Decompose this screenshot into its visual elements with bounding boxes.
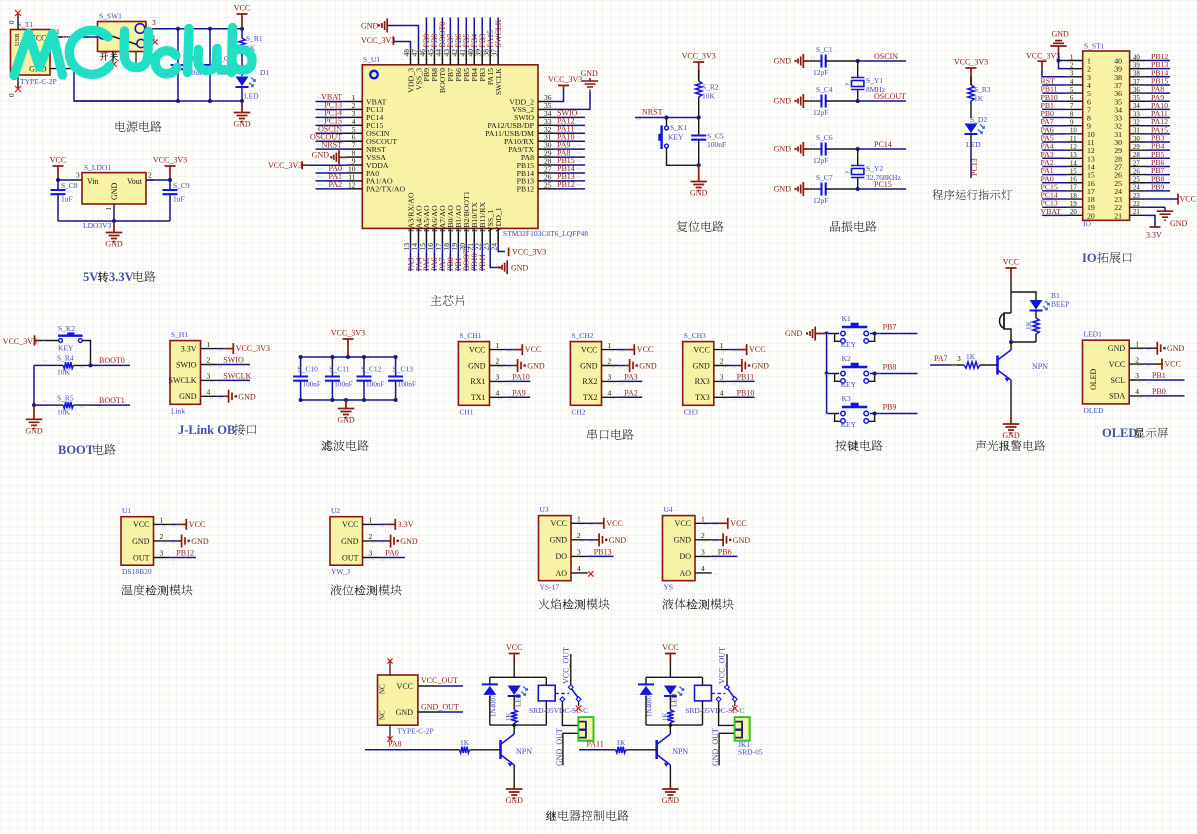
pin 11 U1 PA1/AO — [347, 180, 362, 182]
svg-text:CH2: CH2 — [571, 407, 585, 416]
svg-text:S_T1: S_T1 — [17, 20, 34, 29]
svg-text:GND: GND — [733, 536, 751, 545]
svg-text:?: ? — [845, 83, 852, 86]
svg-text:4: 4 — [701, 564, 705, 573]
pin 1 T1 — [50, 36, 74, 38]
svg-text:VCC: VCC — [581, 345, 597, 354]
svg-text:TX3: TX3 — [695, 393, 710, 402]
net label GND_OUT — [418, 711, 440, 713]
svg-text:1: 1 — [496, 341, 500, 350]
svg-text:2: 2 — [1135, 355, 1139, 364]
svg-text:K2: K2 — [842, 354, 851, 363]
svg-text:1: 1 — [720, 341, 724, 350]
power VCC U4 — [712, 522, 719, 524]
svg-text:S_C8: S_C8 — [61, 181, 78, 190]
pin 46 U1 PB9 — [425, 50, 427, 65]
svg-text:PB8: PB8 — [883, 362, 897, 371]
resistor S_R2 — [698, 70, 700, 81]
svg-text:GND: GND — [609, 536, 627, 545]
pin 2 U1 PC13 — [347, 108, 362, 110]
svg-text:PC15: PC15 — [874, 180, 892, 189]
pin 11 ST1 — [1067, 141, 1083, 143]
pin 22 U1 PB11/RX — [481, 228, 483, 243]
svg-text:36: 36 — [1133, 87, 1140, 94]
svg-text:S_C13: S_C13 — [393, 365, 414, 374]
svg-text:U1: U1 — [122, 506, 131, 515]
pin 1 LDO1 — [113, 204, 115, 212]
pin 1 ST1 — [1067, 60, 1083, 62]
pin 34 ST1 — [1130, 108, 1146, 110]
svg-text:1K: 1K — [616, 738, 626, 747]
svg-text:17: 17 — [1070, 185, 1077, 192]
svg-text:GND: GND — [468, 361, 486, 370]
svg-text:S_C7: S_C7 — [816, 173, 833, 182]
svg-text:PB11: PB11 — [478, 254, 487, 272]
svg-text:NC: NC — [379, 684, 387, 694]
pin 24 ST1 — [1130, 190, 1146, 192]
resistor 1K relay — [511, 710, 517, 723]
capacitor S_C10 — [300, 357, 302, 377]
svg-text:LED: LED — [671, 693, 679, 707]
svg-text:34: 34 — [1133, 103, 1140, 110]
wire filter bottom rail — [301, 399, 396, 401]
svg-text:S_Y1: S_Y1 — [866, 76, 883, 85]
title 声光报警电路 — [976, 440, 987, 451]
net label SWCLK — [217, 379, 250, 381]
svg-text:RX1: RX1 — [470, 377, 485, 386]
wire gndout — [563, 733, 579, 765]
svg-text:100nF: 100nF — [366, 381, 384, 389]
svg-text:1uF: 1uF — [61, 195, 73, 204]
svg-text:SCL: SCL — [1111, 376, 1126, 385]
svg-text:12: 12 — [1070, 144, 1077, 151]
module U3 YS-17 — [539, 516, 572, 581]
svg-text:D1: D1 — [260, 68, 269, 77]
svg-text:KEY: KEY — [841, 420, 857, 429]
wire T1 pin2 down — [74, 69, 178, 101]
svg-text:GND: GND — [361, 22, 379, 31]
pin 3 LDO1 — [74, 179, 82, 181]
svg-text:23: 23 — [1133, 193, 1140, 200]
pin 27 U1 PB14 — [538, 172, 553, 174]
wire PC14 — [858, 148, 906, 150]
svg-text:GND: GND — [233, 120, 251, 129]
connector S_CH1 — [458, 342, 489, 406]
svg-text:4: 4 — [720, 389, 724, 398]
svg-text:VCC: VCC — [1165, 360, 1181, 369]
svg-text:S_LDO1: S_LDO1 — [84, 163, 111, 172]
connector S_H1 JLink — [170, 341, 201, 405]
svg-text:TYPE-C-2P: TYPE-C-2P — [397, 727, 434, 736]
svg-text:OUT: OUT — [133, 553, 150, 562]
svg-text:PB7: PB7 — [883, 322, 897, 331]
svg-text:YS: YS — [664, 583, 674, 592]
net label PB11 — [731, 380, 755, 382]
svg-text:YS-17: YS-17 — [540, 583, 560, 592]
pin 43 U1 PB7 — [449, 50, 451, 65]
ground GND U1 — [170, 540, 177, 542]
svg-text:7: 7 — [1070, 103, 1074, 110]
title 主芯片 — [431, 295, 442, 305]
wire ldo bottom rail — [58, 220, 170, 222]
svg-text:0: 0 — [8, 93, 16, 97]
pin 18 U1 PB0/AO — [449, 228, 451, 243]
svg-text:AO: AO — [555, 569, 567, 578]
wire to K3 — [827, 413, 835, 415]
svg-text:4: 4 — [207, 388, 211, 397]
wire base relay — [579, 749, 601, 751]
svg-text:8: 8 — [1070, 111, 1074, 118]
svg-text:BOOT1: BOOT1 — [99, 396, 125, 405]
svg-text:GND: GND — [396, 708, 414, 717]
svg-text:CH1: CH1 — [459, 407, 473, 416]
svg-text:S_R5: S_R5 — [57, 393, 74, 402]
svg-text:VCC: VCC — [1180, 195, 1196, 204]
ground GND ch2 — [618, 365, 625, 367]
svg-text:NPN: NPN — [516, 747, 532, 756]
module U1 DS18B20 — [121, 517, 154, 566]
svg-text:GND: GND — [692, 361, 710, 370]
wire collector relay — [669, 725, 671, 734]
pin 33 U1 PA12/USB/DP — [538, 124, 553, 126]
svg-text:VCC: VCC — [693, 345, 709, 354]
svg-text:11: 11 — [1070, 136, 1077, 143]
pin 12 ST1 — [1067, 149, 1083, 151]
wire base relay — [365, 749, 445, 751]
wire power bottom rail — [74, 100, 242, 102]
svg-text:GND: GND — [527, 362, 545, 371]
ground GND relay PA11 — [662, 785, 679, 798]
svg-text:GND: GND — [580, 361, 598, 370]
key S_K1 — [666, 118, 668, 127]
svg-text:OLED: OLED — [1084, 406, 1105, 415]
svg-text:OLED: OLED — [1102, 426, 1137, 440]
svg-text:SDA: SDA — [1109, 392, 1125, 401]
svg-text:30: 30 — [1133, 136, 1140, 143]
pin 33 ST1 — [1130, 117, 1146, 119]
pin 31 ST1 — [1130, 133, 1146, 135]
svg-text:PB11: PB11 — [737, 373, 755, 382]
svg-text:GND: GND — [179, 392, 197, 401]
title 复位电路 — [677, 221, 688, 232]
svg-text:VCC_3V3: VCC_3V3 — [361, 36, 395, 45]
svg-text:LED: LED — [515, 693, 523, 707]
svg-text:GND: GND — [690, 189, 708, 198]
net label PA9 — [506, 396, 530, 398]
wire relay bottom rail — [490, 724, 547, 726]
pin 21 ST1 — [1130, 214, 1146, 216]
svg-text:LED: LED — [244, 92, 259, 101]
buzzer B1 — [1000, 314, 1005, 329]
svg-text:12: 12 — [348, 180, 356, 189]
pin 2 T1 — [50, 68, 74, 70]
svg-text:VCC: VCC — [469, 345, 485, 354]
pin 14 ST1 — [1067, 165, 1083, 167]
connector JK relay — [735, 717, 750, 741]
wire OSCOUT — [858, 100, 906, 102]
wire GND to pin35 — [553, 91, 590, 109]
pin 41 U1 PB5 — [465, 50, 467, 65]
svg-text:16: 16 — [1070, 177, 1077, 184]
svg-text:VCC_3V3: VCC_3V3 — [3, 337, 37, 346]
pin 7 U1 NRST — [347, 148, 362, 150]
wire collector relay — [513, 725, 515, 734]
no-ERC T2 bottom — [389, 725, 391, 738]
module U4 YS — [663, 516, 696, 581]
pin 12 U1 PA2/TX/AO — [347, 188, 362, 190]
capacitor S_C2 — [177, 29, 179, 65]
svg-text:DS18B20: DS18B20 — [122, 567, 152, 576]
title 继电器控制电路 — [546, 811, 557, 822]
svg-text:BEEP: BEEP — [1051, 300, 1069, 309]
crystal S_Y1 — [857, 61, 859, 77]
svg-text:3.3V: 3.3V — [1146, 231, 1162, 240]
svg-text:10K: 10K — [57, 407, 71, 416]
ground GND U4 — [712, 539, 719, 541]
label 开关 — [100, 53, 109, 61]
title 串口电路 — [587, 429, 597, 440]
svg-text:GND: GND — [1170, 219, 1188, 228]
svg-text:VCC: VCC — [397, 682, 413, 691]
svg-text:K3: K3 — [842, 394, 851, 403]
capacitor S_C9 — [169, 180, 171, 190]
svg-text:12pF: 12pF — [813, 68, 828, 77]
resistor 1K base relay — [616, 747, 626, 753]
svg-text:1: 1 — [1135, 339, 1139, 348]
svg-text:VDD_1: VDD_1 — [494, 207, 503, 232]
wire vcc to key2 — [40, 340, 59, 342]
wire VCC_3V3 to pin36 — [553, 90, 564, 102]
pin 23 U1 VSS_1 — [489, 228, 491, 243]
svg-text:VCC_3V3: VCC_3V3 — [682, 52, 716, 61]
pin 19 ST1 — [1067, 206, 1083, 208]
title 电源电路 — [116, 121, 126, 132]
wire collector — [1010, 342, 1012, 348]
pin 16 ST1 — [1067, 182, 1083, 184]
capacitor S_C1 — [809, 60, 822, 62]
svg-text:3: 3 — [1135, 371, 1139, 380]
pin 16 U1 PA6/AO — [433, 228, 435, 243]
svg-text:?: ? — [845, 171, 852, 174]
pin 25 ST1 — [1130, 182, 1146, 184]
LED relay — [508, 686, 521, 696]
resistor S_R5 — [63, 402, 74, 408]
svg-text:12pF: 12pF — [813, 108, 828, 117]
no-ERC SW1 bottom pins — [112, 52, 114, 63]
pin 35 U1 VSS_2 — [538, 108, 553, 110]
pin 23 ST1 — [1130, 198, 1146, 200]
net label PB10 — [731, 396, 755, 398]
svg-text:38: 38 — [1133, 71, 1140, 78]
ground GND alarm — [1003, 415, 1020, 433]
diode 1N4007 — [482, 683, 498, 685]
svg-text:S_C6: S_C6 — [816, 133, 833, 142]
pin 6 ST1 — [1067, 100, 1083, 102]
no-ERC T2 top — [389, 662, 391, 675]
svg-text:PA10: PA10 — [512, 373, 530, 382]
svg-text:1uF: 1uF — [173, 195, 185, 204]
svg-text:35: 35 — [1133, 95, 1140, 102]
LED relay — [664, 686, 677, 696]
svg-text:12pF: 12pF — [813, 196, 828, 205]
pin 48 U1 VDD_3 — [410, 50, 412, 65]
svg-text:VCC: VCC — [133, 520, 149, 529]
svg-text:PA8: PA8 — [388, 740, 402, 749]
pin 28 ST1 — [1130, 157, 1146, 159]
svg-text:LDO3V3: LDO3V3 — [83, 221, 112, 230]
pin 8 ST1 — [1067, 117, 1083, 119]
crystal S_Y2 — [857, 149, 859, 165]
svg-text:DO: DO — [679, 552, 691, 561]
pin 2 LDO1 — [146, 179, 154, 181]
relay contact assembly — [711, 692, 725, 694]
wire contact to connector — [562, 701, 578, 725]
no-ERC bottom pin T1 — [17, 75, 19, 88]
svg-text:GND: GND — [238, 392, 256, 401]
pin 15 U1 PA5/AO — [425, 228, 427, 243]
pin 5 ST1 — [1067, 92, 1083, 94]
svg-text:SRD-05: SRD-05 — [738, 748, 763, 757]
pin 13 ST1 — [1067, 157, 1083, 159]
svg-text:3: 3 — [76, 171, 80, 180]
wire VCC_3V3 to pin9 — [309, 164, 347, 166]
capacitor S_C3 — [209, 29, 211, 65]
svg-text:VCC: VCC — [749, 345, 765, 354]
svg-text:KEY: KEY — [58, 344, 74, 353]
resistor 1K alarm — [1033, 318, 1039, 334]
svg-text:GND: GND — [1167, 344, 1185, 353]
svg-text:1K: 1K — [1024, 320, 1033, 330]
svg-text:PA2/TX/AO: PA2/TX/AO — [366, 185, 406, 194]
svg-text:1: 1 — [369, 516, 373, 525]
connector JK relay — [578, 717, 593, 741]
connector S_CH3 — [683, 342, 714, 406]
svg-text:S_C4: S_C4 — [816, 85, 833, 94]
svg-text:VCC: VCC — [637, 345, 653, 354]
net label PB12 — [170, 557, 196, 559]
svg-text:TX1: TX1 — [471, 393, 486, 402]
LED D1 — [236, 77, 249, 87]
wire to K2 — [827, 373, 835, 375]
wire NRST — [635, 117, 699, 119]
svg-text:3: 3 — [577, 548, 581, 557]
wire gndout — [719, 733, 735, 765]
svg-text:S_R3: S_R3 — [974, 85, 991, 94]
pin 20 U1 PB2/BOOT1 — [465, 228, 467, 243]
net label PB6 — [712, 555, 738, 557]
svg-text:S_C1: S_C1 — [816, 45, 833, 54]
svg-text:Vout: Vout — [127, 177, 143, 186]
svg-text:GND: GND — [774, 97, 792, 106]
capacitor S_C5 — [698, 118, 700, 136]
ground GND ch3 — [731, 365, 738, 367]
svg-text:1: 1 — [207, 340, 211, 349]
wire contact to connector — [719, 701, 735, 725]
pin 25 U1 PB12 — [538, 188, 553, 190]
pin 32 ST1 — [1130, 125, 1146, 127]
svg-text:2: 2 — [160, 532, 164, 541]
wire emitter relay — [669, 765, 671, 785]
svg-text:37: 37 — [1133, 79, 1140, 86]
svg-text:OUT: OUT — [342, 553, 359, 562]
svg-text:PA9: PA9 — [512, 389, 526, 398]
svg-text:PB10: PB10 — [737, 389, 755, 398]
svg-text:GND_OUT: GND_OUT — [421, 703, 459, 712]
svg-text:SWCLK: SWCLK — [223, 372, 251, 381]
net label VCC_OUT — [418, 685, 440, 687]
svg-text:PA11: PA11 — [587, 740, 604, 749]
svg-text:VCC: VCC — [50, 156, 66, 165]
svg-text:GND: GND — [1052, 30, 1070, 39]
svg-text:14: 14 — [1070, 160, 1077, 167]
svg-text:PB9: PB9 — [883, 402, 897, 411]
resistor S_R4 — [63, 362, 74, 368]
svg-text:S_R2: S_R2 — [702, 83, 719, 92]
net label PA3 — [618, 380, 642, 382]
svg-text:15: 15 — [1070, 168, 1077, 175]
pin 14 U1 PA4/AO — [417, 228, 419, 243]
svg-text:OSCOUT: OSCOUT — [874, 92, 906, 101]
svg-text:VBAT: VBAT — [1041, 207, 1062, 216]
pin 24 U1 VDD_1 — [497, 228, 499, 243]
svg-text:J-Link OB: J-Link OB — [178, 423, 235, 437]
svg-text:CH3: CH3 — [684, 407, 698, 416]
svg-text:1K: 1K — [966, 352, 976, 361]
svg-text:PB12: PB12 — [517, 185, 534, 194]
svg-text:GND: GND — [511, 263, 529, 272]
wire base — [930, 364, 950, 366]
svg-text:VCC: VCC — [506, 643, 522, 652]
svg-text:LED1: LED1 — [1084, 330, 1103, 339]
svg-text:VCC_3V3: VCC_3V3 — [236, 344, 270, 353]
svg-text:25: 25 — [544, 180, 552, 189]
svg-text:SWCLK: SWCLK — [494, 19, 503, 47]
svg-text:VCC_3V3: VCC_3V3 — [512, 248, 546, 257]
power 3.3V U2 — [379, 523, 386, 525]
svg-text:26: 26 — [1133, 168, 1140, 175]
pin 42 U1 PB6 — [457, 50, 459, 65]
svg-text:GND: GND — [341, 537, 359, 546]
relay coil — [538, 685, 555, 701]
svg-text:SWCLK: SWCLK — [494, 68, 503, 96]
svg-text:27: 27 — [1133, 160, 1140, 167]
svg-text:VCC: VCC — [1109, 360, 1125, 369]
svg-text:1: 1 — [104, 207, 113, 211]
wire boot1 row — [34, 404, 51, 406]
net label PA2 — [618, 396, 642, 398]
svg-text:PB12: PB12 — [557, 180, 575, 189]
pin 2 ST1 — [1067, 68, 1083, 70]
svg-text:VCC: VCC — [189, 520, 205, 529]
svg-text:S_ST1: S_ST1 — [1084, 42, 1105, 51]
svg-text:S_CH2: S_CH2 — [571, 331, 593, 340]
connector S_CH2 — [570, 342, 601, 406]
power port VCC_3V3 U1 pin24 — [508, 248, 510, 257]
svg-text:3: 3 — [957, 354, 961, 363]
svg-text:VCC: VCC — [662, 643, 678, 652]
svg-text:Link: Link — [171, 406, 185, 415]
wire GND to pin47 — [387, 26, 418, 50]
pin 39 ST1 — [1130, 68, 1146, 70]
svg-text:VCC_3V3: VCC_3V3 — [1026, 52, 1060, 61]
net label PB0 — [1146, 395, 1185, 397]
transistor NPN PA8 — [499, 740, 502, 759]
relay coil — [695, 685, 712, 701]
svg-text:GND: GND — [191, 537, 209, 546]
pin 39 U1 PB3 — [481, 50, 483, 65]
svg-text:PB12: PB12 — [176, 549, 194, 558]
svg-text:13: 13 — [1070, 152, 1077, 159]
